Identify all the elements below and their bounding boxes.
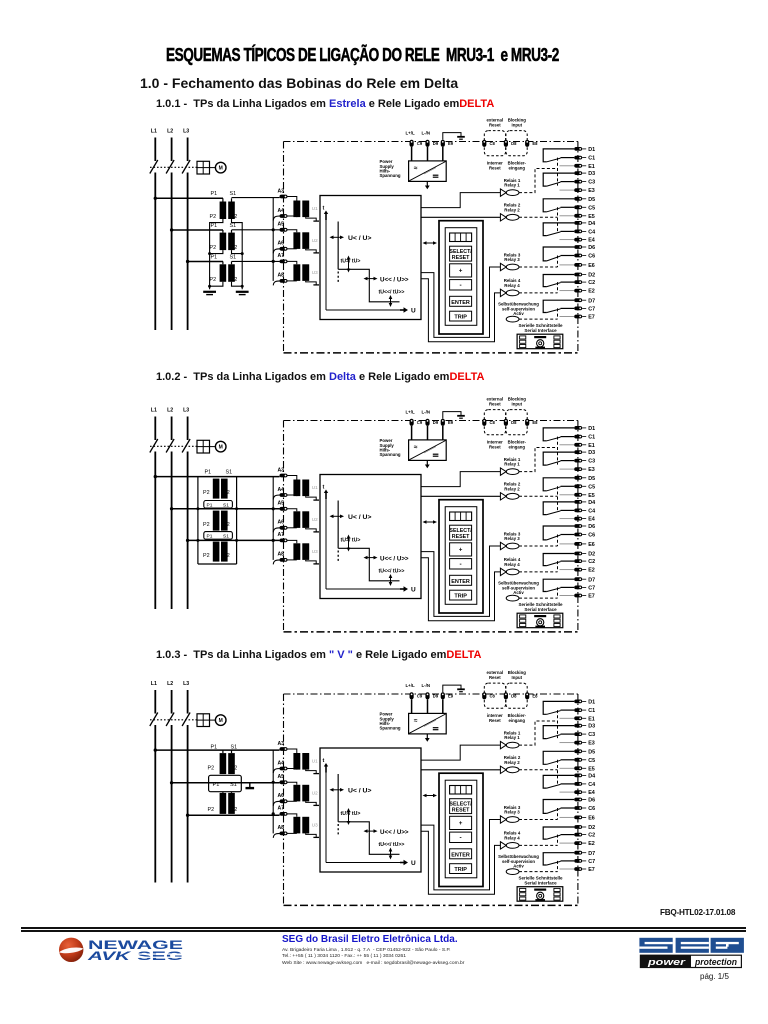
svg-text:E3: E3 <box>588 188 595 194</box>
terminal D2 (1.0.1) <box>574 273 582 277</box>
threshold arrow U< (1.0.2) <box>332 515 343 517</box>
relay coil K4 (1.0.2) <box>500 568 506 575</box>
relay coil K1 (1.0.3) <box>500 741 506 748</box>
junction dot phase (1.0.3) <box>154 748 157 751</box>
terminal E5 (1.0.3) <box>574 766 582 770</box>
button TRIP (1.0.2) <box>450 590 472 600</box>
front panel inner box (1.0.3) <box>445 780 477 878</box>
svg-text:Activ: Activ <box>513 864 524 869</box>
breaker contact L2 (1.0.1) <box>166 160 174 174</box>
input transformer U3 (1.0.2) <box>293 543 300 560</box>
terminal A7 (1.0.3) <box>280 812 288 816</box>
terminal C6 (1.0.1) <box>574 254 582 258</box>
svg-text:AVK: AVK <box>86 949 132 963</box>
svg-text:C1: C1 <box>588 156 595 162</box>
wire secondary U3 bottom hook (1.0.3) <box>306 833 317 837</box>
jumper hook at A (1.0.2) <box>273 495 280 500</box>
svg-text:E1: E1 <box>588 443 595 449</box>
threshold arrow U<< (1.0.3) <box>366 830 376 832</box>
svg-text:M: M <box>219 445 223 451</box>
wire A6 to U2 bottom (1.0.1) <box>287 248 297 250</box>
svg-text:L1: L1 <box>151 681 157 687</box>
wire A7 to U3 (1.0.3) <box>287 814 297 817</box>
wire to relay 1 coil (1.0.3) <box>421 745 500 760</box>
svg-text:C9: C9 <box>417 693 423 698</box>
linkage relay 2 (1.0.3) <box>519 769 558 771</box>
changeover contact D5/C5/E5 (1.0.2) <box>543 478 574 491</box>
terminal D5 (1.0.3) <box>574 749 582 753</box>
terminal A8 (1.0.3) <box>280 832 288 836</box>
breaker contact L2 (1.0.2) <box>166 439 174 453</box>
svg-text:P1: P1 <box>211 223 218 229</box>
svg-text:L2: L2 <box>167 129 173 135</box>
changeover contact D5/C5/E5 (1.0.1) <box>543 199 574 212</box>
svg-text:D8: D8 <box>511 141 517 146</box>
svg-text:eingang: eingang <box>509 718 526 723</box>
svg-text:A6: A6 <box>278 793 285 799</box>
svg-text:A8: A8 <box>278 552 285 558</box>
display window (1.0.2) <box>450 512 472 521</box>
button minus (1.0.3) <box>450 832 472 842</box>
panel link double arrow (1.0.2) <box>425 521 436 523</box>
svg-text:E8: E8 <box>532 420 538 425</box>
wire secondary U1 bottom hook (1.0.1) <box>306 217 317 221</box>
blocking input dashed box (1.0.1) <box>506 131 527 156</box>
svg-text:C3: C3 <box>588 180 595 186</box>
svg-text:E3: E3 <box>588 741 595 747</box>
relay boundary dash-dot left (1.0.3) <box>283 694 285 904</box>
terminal C8 (1.0.2) <box>482 419 486 426</box>
changeover contact D2/C2/E2 (1.0.3) <box>543 827 574 839</box>
terminal D7 (1.0.3) <box>574 851 582 855</box>
svg-text:tU>/ tU>: tU>/ tU> <box>341 811 361 817</box>
svg-text:E9: E9 <box>448 141 454 146</box>
terminal C6 (1.0.2) <box>574 533 582 537</box>
jumper hook at A (1.0.3) <box>273 801 280 806</box>
wire E9 to power supply (1.0.1) <box>442 147 444 161</box>
wire to relay 1 coil (1.0.2) <box>421 472 500 487</box>
changeover contact D2/C2/E2 (1.0.2) <box>543 554 574 566</box>
svg-text:protection: protection <box>694 957 737 968</box>
svg-text:A4: A4 <box>278 487 285 493</box>
linkage relay 3 (1.0.3) <box>519 819 558 821</box>
terminal D8 (1.0.3) <box>504 692 508 699</box>
power supply converter box (1.0.1) <box>409 161 447 182</box>
svg-text:D5: D5 <box>588 749 595 755</box>
voltage transformer T1 (1.0.1) <box>222 198 224 201</box>
characteristic step curve (1.0.2) <box>337 501 339 549</box>
changeover contact D3/C3/E3 (1.0.1) <box>543 173 574 186</box>
terminal E5 (1.0.2) <box>574 493 582 497</box>
terminal C1 (1.0.1) <box>574 156 582 160</box>
wire A3 to U1 (1.0.2) <box>287 476 297 480</box>
svg-text:C1: C1 <box>588 708 595 714</box>
button plus (1.0.2) <box>450 543 472 556</box>
changeover contact D5/C5/E5 (1.0.3) <box>543 751 574 764</box>
svg-text:C7: C7 <box>588 586 595 592</box>
svg-text:D4: D4 <box>588 221 595 227</box>
terminal A4 (1.0.2) <box>280 493 288 497</box>
svg-text:TRIP: TRIP <box>454 867 467 873</box>
svg-text:Reset: Reset <box>489 718 501 723</box>
wire A4 to U1 bottom (1.0.3) <box>287 769 297 770</box>
svg-text:+: + <box>459 821 463 827</box>
svg-text:Relay 1: Relay 1 <box>504 183 520 188</box>
svg-text:S1: S1 <box>223 503 229 509</box>
wire A5 to U2 (1.0.3) <box>287 782 297 785</box>
svg-text:D8: D8 <box>511 693 517 698</box>
svg-text:A4: A4 <box>278 760 285 766</box>
svg-text:L2: L2 <box>167 408 173 414</box>
wire to relay 1 coil (1.0.1) <box>421 193 500 208</box>
U axis (1.0.2) <box>326 588 401 590</box>
power supply output arrow (1.0.3) <box>426 734 428 739</box>
wire L- to power supply (1.0.2) <box>427 426 429 440</box>
relay coil K3 (1.0.3) <box>500 816 506 823</box>
button minus (1.0.1) <box>450 280 472 290</box>
relay boundary dash-dot left (1.0.2) <box>283 421 285 631</box>
svg-text:E6: E6 <box>588 816 595 822</box>
terminal D6 (1.0.3) <box>574 798 582 802</box>
relay boundary dash-dot bottom (1.0.1) <box>284 352 578 354</box>
wire T3 secondary to A7 (1.0.1) <box>232 260 280 262</box>
svg-text:P1: P1 <box>205 469 212 475</box>
relay coil K2 (1.0.1) <box>500 214 506 221</box>
terminal D8 (1.0.1) <box>504 140 508 147</box>
junction dot phase (1.0.1) <box>186 260 189 263</box>
power protection box <box>640 955 741 967</box>
striped SEG letter S <box>639 938 744 953</box>
svg-text:≈: ≈ <box>414 444 418 451</box>
svg-text:P1: P1 <box>207 503 213 509</box>
wire to relay 2 coil (1.0.3) <box>421 769 500 771</box>
wire to relay 4 coil (1.0.3) <box>421 831 500 894</box>
self-supervision contact oval (1.0.3) <box>506 869 519 875</box>
power supply converter box (1.0.2) <box>409 440 447 461</box>
svg-text:t: t <box>323 758 325 764</box>
terminal E3 (1.0.2) <box>574 467 582 471</box>
terminal C7 (1.0.2) <box>574 586 582 590</box>
linkage supervision (1.0.2) <box>519 597 558 599</box>
terminal A5 (1.0.1) <box>280 228 288 232</box>
svg-text:L+/L: L+/L <box>406 409 415 414</box>
breaker contact L1 (1.0.3) <box>150 713 158 727</box>
motor stub wire (1.0.3) <box>210 719 216 721</box>
svg-text:TRIP: TRIP <box>454 315 467 321</box>
wire secondary U1 bottom hook (1.0.2) <box>306 496 317 500</box>
phase line L3 (1.0.3) <box>187 690 189 714</box>
self-supervision contact oval (1.0.2) <box>506 595 519 601</box>
svg-text:C7: C7 <box>588 859 595 865</box>
U axis (1.0.3) <box>326 862 401 864</box>
breaker contact L2 (1.0.3) <box>166 713 174 727</box>
button SELECT/RESET (1.0.2) <box>450 525 472 540</box>
terminal D2 (1.0.2) <box>574 552 582 556</box>
voltage transformer T2 (1.0.3) <box>220 793 227 814</box>
changeover contact D6/C6/E6 (1.0.1) <box>543 247 574 261</box>
wire L3 feed to T3 primary (1.0.1) <box>188 261 223 263</box>
linkage relay 2 (1.0.2) <box>519 495 558 497</box>
changeover contact D7/C7/E7 (1.0.1) <box>543 300 574 312</box>
terminal L+/L (1.0.1) <box>410 140 414 147</box>
svg-text:A8: A8 <box>278 825 285 831</box>
svg-text:A7: A7 <box>278 532 285 538</box>
svg-text:RESET: RESET <box>452 534 470 540</box>
voltage transformer T2 (1.0.1) <box>222 230 224 233</box>
svg-text:Reset: Reset <box>489 166 501 171</box>
wire L1 feed across to A3 (1.0.3) <box>155 749 279 751</box>
relay boundary dash-dot right (1.0.1) <box>577 142 579 353</box>
front panel inner box (1.0.1) <box>445 228 477 326</box>
svg-text:C5: C5 <box>588 205 595 211</box>
wire to relay 4 coil (1.0.1) <box>421 279 500 342</box>
button TRIP (1.0.3) <box>450 864 472 874</box>
svg-text:L3: L3 <box>183 681 189 687</box>
voltage transformer T2 (1.0.2) <box>213 511 220 531</box>
svg-text:C4: C4 <box>588 782 595 788</box>
wire L2 feed to T2 primary (1.0.1) <box>172 229 223 231</box>
phase line L3 (1.0.1) <box>187 138 189 162</box>
terminal E4 (1.0.3) <box>574 790 582 794</box>
wire secondary U3 bottom hook (1.0.1) <box>306 281 317 285</box>
terminal A7 (1.0.2) <box>280 539 288 543</box>
svg-text:D6: D6 <box>588 524 595 530</box>
input transformer U2 (1.0.3) <box>293 785 300 802</box>
serial interface connector (1.0.1) <box>517 334 563 349</box>
svg-text:U< / U>: U< / U> <box>348 235 371 242</box>
linkage relay 4 (1.0.1) <box>519 292 558 294</box>
earth wire from E9 (1.0.1) <box>443 133 461 140</box>
terminal E9 earth (1.0.3) <box>441 692 445 699</box>
footer company name <box>282 934 458 945</box>
serial interface connector (1.0.3) <box>517 887 563 902</box>
svg-text:P2: P2 <box>203 522 210 528</box>
svg-text:E8: E8 <box>532 141 538 146</box>
phase line L3 (1.0.2) <box>187 417 189 441</box>
motor stub wire (1.0.1) <box>210 167 216 169</box>
svg-text:-: - <box>460 282 462 289</box>
svg-text:A3: A3 <box>278 741 285 747</box>
terminal D3 (1.0.1) <box>574 171 582 175</box>
terminal C2 (1.0.2) <box>574 559 582 563</box>
svg-text:Input: Input <box>512 123 523 128</box>
svg-text:E7: E7 <box>588 867 595 873</box>
svg-text:Spannung: Spannung <box>380 452 401 457</box>
svg-text:L-/N: L-/N <box>422 130 431 135</box>
svg-text:P1: P1 <box>207 534 213 540</box>
terminal C3 (1.0.3) <box>574 732 582 736</box>
terminal E9 earth (1.0.2) <box>441 419 445 426</box>
terminal C6 (1.0.3) <box>574 806 582 810</box>
changeover contact D7/C7/E7 (1.0.3) <box>543 853 574 865</box>
svg-text:L1: L1 <box>151 408 157 414</box>
junction dot phase (1.0.3) <box>186 814 189 817</box>
svg-text:S2: S2 <box>223 522 230 528</box>
svg-text:L3: L3 <box>183 408 189 414</box>
terminal E7 (1.0.2) <box>574 594 582 598</box>
svg-text:E2: E2 <box>588 841 595 847</box>
svg-text:S2: S2 <box>223 490 230 496</box>
subsection heading 1.0.3 <box>156 649 481 661</box>
terminal E2 (1.0.3) <box>574 841 582 845</box>
jumper hook at A (1.0.1) <box>273 249 280 254</box>
terminal C8 (1.0.1) <box>482 140 486 147</box>
terminal D4 (1.0.3) <box>574 774 582 778</box>
phase line L1 (1.0.3) <box>154 690 156 714</box>
terminal C4 (1.0.3) <box>574 782 582 786</box>
svg-text:D1: D1 <box>588 147 595 153</box>
terminal E2 (1.0.1) <box>574 289 582 293</box>
svg-text:C8: C8 <box>490 693 496 698</box>
wire L1 feed across to A3 (1.0.2) <box>155 476 279 478</box>
terminal E1 (1.0.1) <box>574 164 582 168</box>
svg-text:S2: S2 <box>223 553 230 559</box>
svg-text:D2: D2 <box>588 552 595 558</box>
terminal D5 (1.0.2) <box>574 476 582 480</box>
voltage transformer T3 (1.0.1) <box>222 262 224 265</box>
svg-text:D5: D5 <box>588 197 595 203</box>
svg-text:E4: E4 <box>588 517 595 523</box>
svg-text:D1: D1 <box>588 700 595 706</box>
wire L2 feed across to A5 (1.0.2) <box>172 508 280 510</box>
relay boundary dash-dot top (1.0.3) <box>284 693 578 695</box>
svg-text:ENTER: ENTER <box>451 852 470 858</box>
wire to relay 4 coil (1.0.2) <box>421 558 500 621</box>
button plus (1.0.3) <box>450 816 472 829</box>
wire A8 to U3 bottom (1.0.1) <box>287 280 297 282</box>
svg-text:A7: A7 <box>278 806 285 812</box>
svg-text:Relay 3: Relay 3 <box>504 536 520 541</box>
jumper hook at A (1.0.2) <box>273 528 280 533</box>
svg-text:S1: S1 <box>230 191 237 197</box>
svg-text:U1: U1 <box>312 206 318 211</box>
serial interface connector (1.0.2) <box>517 613 563 628</box>
svg-text:C5: C5 <box>588 758 595 764</box>
junction dot phase (1.0.1) <box>154 197 157 200</box>
delta closure wire A3-A8 (1.0.3) <box>272 750 274 833</box>
svg-text:L+/L: L+/L <box>406 683 415 688</box>
blocking input dashed box (1.0.2) <box>506 410 527 435</box>
relay coil K1 (1.0.2) <box>500 468 506 475</box>
svg-text:ENTER: ENTER <box>451 579 470 585</box>
svg-text:Relay 1: Relay 1 <box>504 735 520 740</box>
terminal C5 (1.0.3) <box>574 758 582 762</box>
linkage relay 1 (1.0.1) <box>519 169 558 193</box>
svg-text:+: + <box>459 548 463 554</box>
motor stub wire (1.0.2) <box>210 446 216 448</box>
footer double rule <box>21 927 746 929</box>
jumper hook at A (1.0.1) <box>273 216 280 221</box>
svg-text:C3: C3 <box>588 459 595 465</box>
threshold arrow U< (1.0.3) <box>332 789 343 791</box>
svg-text:D9: D9 <box>433 141 439 146</box>
svg-text:Serial Interface: Serial Interface <box>524 328 557 333</box>
svg-text:S1: S1 <box>226 469 233 475</box>
terminal D2 (1.0.3) <box>574 825 582 829</box>
terminal C2 (1.0.3) <box>574 833 582 837</box>
phase line L2 (1.0.1) <box>171 138 173 162</box>
characteristic step curve (1.0.1) <box>337 222 339 270</box>
svg-text:D4: D4 <box>588 500 595 506</box>
breaker actuator box (1.0.1) <box>197 161 210 174</box>
threshold arrow U<< (1.0.2) <box>366 557 376 559</box>
jumper hook at A (1.0.3) <box>273 769 280 774</box>
breaker contact L1 (1.0.1) <box>150 160 158 174</box>
svg-text:power: power <box>647 957 687 968</box>
terminal A6 (1.0.3) <box>280 799 288 803</box>
linkage supervision (1.0.1) <box>519 318 558 320</box>
svg-text:TRIP: TRIP <box>454 594 467 600</box>
terminal A5 (1.0.2) <box>280 507 288 511</box>
motor M circle (1.0.3) <box>215 715 226 726</box>
svg-text:D1: D1 <box>588 426 595 432</box>
svg-text:L3: L3 <box>183 129 189 135</box>
svg-text:D7: D7 <box>588 298 595 304</box>
power supply output arrow (1.0.2) <box>426 460 428 465</box>
wire L3 feed across to A7 (1.0.2) <box>188 539 280 541</box>
input transformer U3 (1.0.3) <box>293 817 300 834</box>
junction A5 (1.0.1) <box>272 228 275 231</box>
relay coil K4 (1.0.1) <box>500 289 506 296</box>
svg-text:E6: E6 <box>588 263 595 269</box>
svg-text:C2: C2 <box>588 280 595 286</box>
relay coil K2 (1.0.2) <box>500 493 506 500</box>
terminal C4 (1.0.2) <box>574 509 582 513</box>
wire A5 to U2 (1.0.1) <box>287 230 297 233</box>
svg-text:D3: D3 <box>588 171 595 177</box>
phase line L1 (1.0.2) <box>154 417 156 441</box>
wire secondary U3 bottom hook (1.0.2) <box>306 560 317 564</box>
linkage relay 3 (1.0.2) <box>519 545 558 547</box>
svg-text:D7: D7 <box>588 577 595 583</box>
page number <box>700 972 729 981</box>
breaker contact L1 (1.0.2) <box>150 439 158 453</box>
terminal D3 (1.0.3) <box>574 724 582 728</box>
svg-text:Reset: Reset <box>489 675 501 680</box>
button TRIP (1.0.1) <box>450 311 472 321</box>
svg-text:U2: U2 <box>312 790 318 795</box>
svg-text:A6: A6 <box>278 241 285 247</box>
svg-text:D3: D3 <box>588 724 595 730</box>
svg-text:S2: S2 <box>231 766 238 772</box>
terminal C5 (1.0.1) <box>574 205 582 209</box>
terminal D1 (1.0.2) <box>574 426 582 430</box>
jumper hook at A (1.0.1) <box>273 281 280 286</box>
terminal E6 (1.0.2) <box>574 542 582 546</box>
svg-text:A8: A8 <box>278 273 285 279</box>
input transformer U2 (1.0.2) <box>293 511 300 528</box>
junction A5 (1.0.3) <box>272 781 275 784</box>
changeover contact D4/C4/E4 (1.0.1) <box>543 223 574 236</box>
terminal E8 (1.0.1) <box>525 140 529 147</box>
changeover contact D6/C6/E6 (1.0.3) <box>543 800 574 814</box>
svg-text:U3: U3 <box>312 270 318 275</box>
terminal D3 (1.0.2) <box>574 450 582 454</box>
ground primary star (1.0.1) <box>203 291 216 293</box>
terminal D6 (1.0.2) <box>574 524 582 528</box>
wire L- to power supply (1.0.3) <box>427 699 429 713</box>
external reset dashed box (1.0.3) <box>484 683 505 708</box>
G cuts <box>716 942 739 944</box>
input transformer U1 (1.0.3) <box>293 753 300 770</box>
linkage supervision (1.0.3) <box>519 871 558 873</box>
terminal E8 (1.0.2) <box>525 419 529 426</box>
voltage transformer T1 (1.0.2) <box>213 479 220 499</box>
ground secondary star (1.0.1) <box>236 291 249 293</box>
terminal A4 (1.0.3) <box>280 767 288 771</box>
svg-text:S1: S1 <box>223 534 229 540</box>
svg-text:Relay 1: Relay 1 <box>504 462 520 467</box>
